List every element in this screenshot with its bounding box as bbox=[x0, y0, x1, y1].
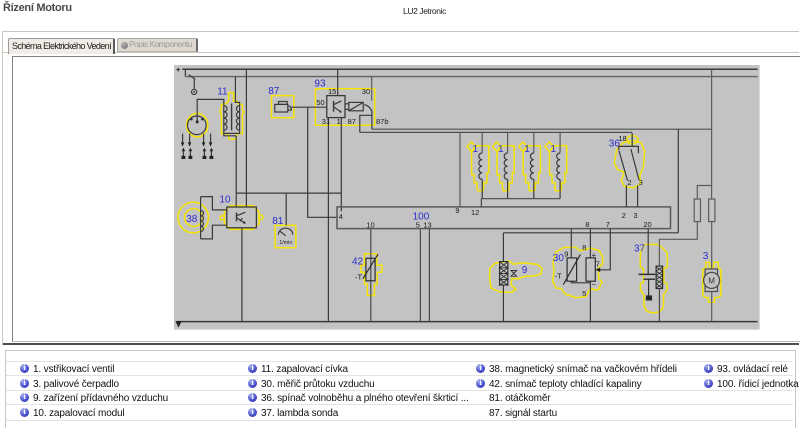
wire: bus1 drop to ignition module bbox=[245, 69, 247, 207]
svg-text:37: 37 bbox=[634, 244, 646, 255]
wire: ECU pin 13 to ground bbox=[428, 229, 430, 322]
coolant temp sensor 42 thermistor bbox=[363, 254, 378, 281]
wire: ECU pin 12 to injector collector bbox=[480, 199, 482, 207]
svg-text:20: 20 bbox=[643, 220, 651, 229]
highlight: injector 4 bbox=[545, 142, 567, 191]
svg-text:8: 8 bbox=[585, 220, 589, 229]
wire: relay output 87b step bbox=[371, 111, 373, 129]
highlight: ignition module 10 bbox=[224, 206, 259, 230]
air valve 9 body bbox=[500, 262, 508, 285]
svg-text:-T: -T bbox=[555, 271, 562, 280]
svg-text:5: 5 bbox=[416, 221, 420, 230]
fuel pump 3 motor bbox=[704, 269, 720, 292]
ground symbol bbox=[175, 321, 181, 328]
fuse F2 bbox=[709, 199, 715, 222]
wire: relay terminal 30 from bus2 bbox=[371, 77, 373, 101]
ignition module 10 body bbox=[227, 207, 257, 228]
air valve 9 gate symbol bbox=[511, 270, 517, 276]
svg-text:+: + bbox=[592, 250, 597, 259]
injector 2 bbox=[504, 133, 507, 199]
wire: rail A drop right of ECU bbox=[677, 129, 679, 233]
svg-text:9: 9 bbox=[455, 206, 459, 215]
wire: fuel pump to ground bbox=[711, 292, 713, 322]
starter signal 87 icon bbox=[275, 102, 292, 113]
svg-text:30: 30 bbox=[362, 87, 370, 96]
svg-text:10: 10 bbox=[219, 195, 231, 206]
svg-text:5: 5 bbox=[582, 289, 586, 298]
svg-text:7: 7 bbox=[606, 220, 610, 229]
svg-text:3: 3 bbox=[639, 178, 643, 187]
wire: sensor 38 lower lead bbox=[201, 225, 227, 239]
tachometer 81 gauge bbox=[278, 228, 292, 246]
wire: top supply bus 1 bbox=[182, 68, 757, 70]
air flow meter 30 potentiometer bbox=[586, 258, 595, 281]
spark plugs bbox=[182, 148, 214, 159]
lambda sonda 37 heater bbox=[656, 266, 663, 288]
svg-text:15: 15 bbox=[328, 87, 336, 96]
ignition module 10 transistor symbol bbox=[237, 212, 246, 223]
magnetic sensor 38 coil bbox=[201, 197, 204, 239]
relay 93 transistor symbol bbox=[334, 101, 342, 113]
svg-text:1: 1 bbox=[524, 144, 530, 155]
ignition coil 11 core bbox=[231, 103, 233, 130]
air flow meter 30 thermistor bbox=[563, 254, 580, 284]
injector 4 bbox=[557, 133, 560, 199]
wire: coil terminal 1 down to node bbox=[235, 136, 237, 207]
wire: coil terminal 15 from bus2 bbox=[235, 77, 239, 105]
ignition switch blade bbox=[189, 75, 196, 80]
injector 3 bbox=[530, 133, 533, 199]
highlight: lambda sonda 37 bbox=[640, 245, 667, 313]
svg-text:1: 1 bbox=[337, 117, 341, 126]
highlight: injector 3 bbox=[519, 142, 541, 191]
svg-text:30: 30 bbox=[553, 253, 565, 264]
wire: feed rail A (87b) bbox=[372, 128, 712, 130]
highlight: injector 2 bbox=[492, 142, 514, 191]
svg-text:8: 8 bbox=[582, 243, 586, 252]
svg-text:2: 2 bbox=[622, 211, 626, 220]
svg-text:7: 7 bbox=[596, 259, 600, 268]
svg-text:1/min: 1/min bbox=[279, 240, 292, 246]
wire: bus1 drop to fuses bbox=[711, 69, 713, 199]
relay 93 control box bbox=[327, 96, 345, 118]
wire: ECU pin 7 to wiper bbox=[595, 229, 610, 273]
svg-text:13: 13 bbox=[423, 221, 431, 230]
wire: injector collector bus bbox=[481, 198, 560, 200]
wire: thermistor bottom link bbox=[571, 281, 590, 283]
wire: fuse branch bbox=[697, 186, 711, 200]
svg-text:10: 10 bbox=[366, 221, 374, 230]
wire: air valve to ground bbox=[502, 285, 504, 322]
wire: relay terminal 1 to ECU pin 4 bbox=[340, 118, 342, 212]
relay contact arm bbox=[364, 105, 372, 111]
wire: sensor 38 upper lead bbox=[201, 197, 227, 210]
node line joining coil, module, tach and ECU pin 4 bbox=[236, 192, 341, 194]
svg-text:93: 93 bbox=[314, 78, 326, 89]
svg-text:31: 31 bbox=[322, 117, 330, 126]
svg-text:1: 1 bbox=[498, 144, 504, 155]
wire: start signal drop to ECU bbox=[308, 107, 337, 217]
svg-text:38: 38 bbox=[186, 214, 198, 225]
highlight: injector 1 bbox=[467, 142, 489, 191]
wire: feed rail B (87) bbox=[360, 131, 632, 133]
highlight: start signal 87 bbox=[272, 96, 294, 118]
wire: fuse F2 to fuel pump bbox=[711, 222, 713, 269]
wire: fuse F1 to lambda heater bbox=[659, 222, 697, 267]
wire: switch 36 terminal 18 from rail B bbox=[631, 133, 633, 146]
highlight: coolant temp sensor 42 bbox=[361, 254, 382, 296]
wire: ECU pin 20 to lambda electrode bbox=[647, 229, 649, 275]
schematic canvas background bbox=[174, 65, 760, 330]
wire: tachometer feed bbox=[285, 193, 287, 225]
svg-text:M: M bbox=[708, 277, 715, 286]
svg-text:3: 3 bbox=[633, 211, 637, 220]
highlight: distributor bbox=[187, 113, 208, 137]
svg-text:42: 42 bbox=[352, 257, 364, 268]
highlight: relay 93 bbox=[315, 89, 374, 125]
distributor circle bbox=[188, 116, 207, 135]
fuse F1 bbox=[694, 199, 700, 222]
highlight: ignition coil 11 bbox=[220, 93, 244, 139]
wire: ECU pin 10 through temp sensor 42 to ground bbox=[370, 229, 372, 322]
distributor rotor contact dot bbox=[196, 121, 199, 124]
svg-text:12: 12 bbox=[471, 208, 479, 217]
svg-text:−: − bbox=[592, 280, 597, 289]
injector 1 bbox=[479, 133, 482, 199]
wire: start signal to relay terminal 50 bbox=[291, 106, 326, 108]
relay 93 coil bbox=[345, 102, 363, 110]
battery + terminal bbox=[176, 65, 181, 74]
svg-text:9: 9 bbox=[564, 249, 568, 258]
wire: ECU pin 8 lead bbox=[589, 229, 591, 258]
svg-text:50: 50 bbox=[316, 98, 324, 107]
wire: auxiliary feed below ECU bbox=[503, 232, 678, 234]
svg-text:87b: 87b bbox=[376, 117, 389, 126]
wire: ECU pin 9 from rail B bbox=[459, 133, 461, 207]
highlight: air valve 9 bbox=[490, 261, 542, 292]
wire: top supply bus 2 bbox=[185, 76, 757, 78]
svg-text:18: 18 bbox=[618, 134, 626, 143]
svg-text:+: + bbox=[176, 65, 181, 74]
highlight: air flow meter 30 bbox=[553, 247, 603, 297]
wire: relay terminal 15 to bus1 bbox=[337, 69, 339, 95]
svg-text:1: 1 bbox=[473, 144, 479, 155]
highlight: tachometer 81 bbox=[275, 225, 296, 247]
wire: switch 36 pin 2 to ECU bbox=[625, 185, 627, 207]
svg-text:87: 87 bbox=[348, 117, 356, 126]
highlight: throttle switch 36 bbox=[614, 136, 644, 188]
ignition switch terminal circle bbox=[192, 89, 197, 94]
wire: jog from bus1 down to bus2 bbox=[184, 69, 186, 76]
switch 36 arms bbox=[619, 151, 628, 181]
ECU 100 body bbox=[337, 207, 671, 229]
highlight: magnetic sensor 38 inner bbox=[185, 209, 203, 227]
highlight: magnetic sensor 38 outer bbox=[178, 202, 209, 233]
wire: module 10 ground lead bbox=[241, 228, 243, 322]
wire: ECU pin 5 to ground bbox=[419, 229, 421, 322]
wire: coil bottom bar bbox=[224, 131, 240, 136]
svg-text:-T: -T bbox=[355, 273, 362, 282]
wire: relay terminal 31 to ground bbox=[327, 118, 329, 322]
distributor cap contacts bbox=[191, 118, 193, 120]
wire: lambda heater to ground bbox=[658, 289, 660, 322]
throttle switch 36 bbox=[619, 133, 639, 207]
svg-text:4: 4 bbox=[339, 212, 343, 221]
svg-text:2: 2 bbox=[627, 178, 631, 187]
svg-text:9: 9 bbox=[522, 265, 528, 276]
svg-text:81: 81 bbox=[272, 216, 284, 227]
svg-text:1: 1 bbox=[551, 144, 557, 155]
wire: pot to ground (pin 5) bbox=[589, 281, 591, 321]
wire: switch 36 pin 3 to ECU bbox=[637, 185, 639, 207]
svg-text:3: 3 bbox=[703, 251, 709, 262]
ignition coil 11 primary winding bbox=[224, 105, 227, 133]
distributor output arrows bbox=[181, 134, 213, 147]
svg-text:87: 87 bbox=[268, 86, 280, 97]
highlight: fuel pump 3 bbox=[703, 262, 721, 302]
switch 36 contact bar bbox=[619, 146, 639, 153]
wire: thermistor to ECU bbox=[570, 229, 572, 258]
ground bus bbox=[177, 321, 758, 323]
svg-text:11: 11 bbox=[217, 87, 228, 98]
lambda sonda 37 electrode bbox=[639, 274, 656, 300]
ignition coil 11 secondary winding bbox=[236, 105, 239, 131]
wire: coil feed horizontal bbox=[197, 99, 224, 121]
wire: switch drop to terminal bbox=[193, 79, 195, 89]
wire: air valve 9 feed bbox=[502, 233, 504, 262]
